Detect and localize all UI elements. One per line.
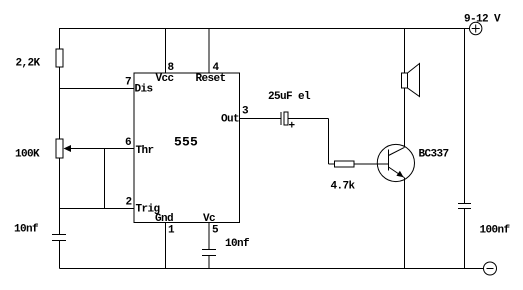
capacitor 25uF right plate box	[284, 112, 288, 125]
svg-text:Dis: Dis	[135, 84, 153, 96]
capacitor 10nf right plates	[202, 249, 216, 251]
svg-text:6: 6	[125, 137, 131, 149]
wire right vertical (top rail to C 100nf)	[464, 29, 466, 204]
op-amp U1 555 body	[134, 73, 240, 223]
transistor Q1 BC337 circle	[377, 144, 414, 181]
transistor base bar	[388, 150, 390, 171]
wire junction vertical (wiper to trig)	[104, 149, 106, 209]
svg-text:2: 2	[126, 197, 132, 209]
wire C 10nf right to bottom rail	[208, 256, 210, 269]
resistor 2,2K body	[56, 49, 63, 67]
wire bottom rail	[60, 268, 484, 270]
wire pin2 Trig horizontal	[60, 208, 135, 210]
capacitor 25uF left plate	[280, 112, 282, 125]
svg-text:100K: 100K	[15, 149, 40, 161]
wire cap to corner	[288, 118, 329, 120]
svg-text:2,2K: 2,2K	[16, 58, 41, 70]
svg-text:Gnd: Gnd	[155, 213, 173, 225]
svg-text:1: 1	[168, 225, 175, 237]
svg-text:Vc: Vc	[203, 213, 215, 225]
wire resistor to base	[354, 163, 389, 165]
svg-text:5: 5	[212, 225, 219, 237]
potentiometer 100K body	[56, 139, 63, 158]
transistor emitter diagonal	[389, 167, 405, 178]
svg-text:Vcc: Vcc	[156, 73, 174, 85]
svg-text:Thr: Thr	[136, 145, 154, 157]
capacitor 100nf plates	[458, 203, 471, 205]
wire pin1 Gnd vertical	[165, 223, 167, 269]
wire right vertical (C 100nf to bottom rail)	[464, 209, 466, 269]
svg-text:555: 555	[174, 135, 198, 150]
capacitor 10nf left plates	[52, 234, 66, 236]
svg-text:4.7k: 4.7k	[331, 181, 356, 193]
svg-text:100nf: 100nf	[480, 225, 511, 237]
power terminal plus	[470, 22, 482, 34]
svg-text:+: +	[289, 121, 296, 133]
transistor collector diagonal	[389, 148, 405, 156]
svg-text:BC337: BC337	[419, 149, 449, 161]
svg-text:Out: Out	[221, 114, 239, 126]
transistor emitter arrowhead	[396, 171, 403, 178]
wire pin5 Vc vertical	[208, 223, 210, 250]
svg-text:Reset: Reset	[196, 73, 226, 85]
svg-text:10nf: 10nf	[14, 224, 39, 236]
speaker LS1 cone	[408, 64, 420, 97]
wire pin7 Dis horizontal	[60, 88, 135, 90]
svg-text:3: 3	[242, 106, 249, 118]
svg-text:7: 7	[125, 77, 131, 89]
potentiometer wiper arrow	[64, 145, 72, 152]
wire top rail	[59, 28, 470, 30]
power terminal minus	[484, 262, 497, 275]
wire left vertical (R 2,2K to pot)	[59, 67, 61, 139]
svg-text:9-12 V: 9-12 V	[464, 14, 501, 26]
wire pin4 Reset vertical	[208, 29, 210, 74]
resistor 4.7k body	[335, 161, 355, 167]
wire collector vertical to speaker	[404, 88, 406, 148]
speaker LS1 box	[402, 73, 408, 88]
wire left vertical (top rail to R 2,2K)	[59, 29, 61, 50]
wire vertical down to 4.7k	[328, 119, 330, 165]
wire wiper to pin6 Thr	[70, 148, 134, 150]
wire pin8 Vcc vertical	[165, 29, 167, 74]
wire emitter vertical to bottom rail	[404, 178, 406, 269]
wire pin3 Out horizontal	[240, 118, 282, 120]
svg-text:25uF el: 25uF el	[268, 91, 311, 103]
wire corner to resistor	[329, 163, 335, 165]
svg-text:10nf: 10nf	[225, 238, 250, 250]
wire left vertical (C 10nf to bottom rail)	[59, 241, 61, 269]
wire top rail to speaker	[404, 29, 406, 74]
wire left vertical (pot to C 10nf)	[59, 158, 61, 235]
